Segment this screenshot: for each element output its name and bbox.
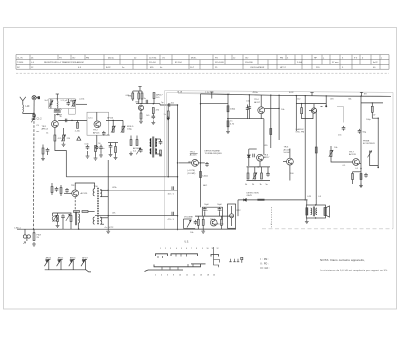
ground GND19 — [305, 220, 309, 224]
svg-text:455kc: 455kc — [253, 92, 258, 94]
svg-text:5: 5 — [173, 194, 175, 196]
resistor R32 — [352, 172, 354, 184]
title block text row 2 — [17, 61, 378, 64]
svg-text:HP 57: HP 57 — [280, 67, 287, 69]
diode D1 — [167, 117, 170, 122]
svg-text:TR.4: TR.4 — [210, 219, 216, 221]
wire jack down — [370, 158, 379, 168]
svg-text:0.25: 0.25 — [307, 196, 312, 198]
resistor R15 — [74, 211, 80, 213]
wire x271 dotted — [271, 207, 273, 228]
svg-text:9 V: 9 V — [354, 57, 358, 59]
svg-text:16 k: 16 k — [168, 194, 173, 196]
wire det row top — [249, 148, 257, 150]
resistor R6 variable — [121, 120, 125, 132]
node base junction — [71, 120, 72, 121]
note NOTA text — [320, 258, 387, 272]
wire T2 collector top — [96, 112, 98, 121]
ground GND9 — [226, 130, 230, 134]
svg-text:14: 14 — [193, 275, 195, 277]
label TR1 AF114 — [42, 126, 49, 131]
svg-text:25µ: 25µ — [107, 134, 111, 136]
svg-text:TR.5: TR.5 — [284, 147, 290, 149]
diode D3 detector — [244, 199, 247, 202]
capacitor C22 — [253, 154, 255, 158]
svg-text:AC125: AC125 — [81, 192, 88, 195]
label AF117 — [156, 93, 163, 99]
speaker LS1 — [324, 206, 330, 217]
capacitor C24 electrolytic — [203, 207, 209, 212]
resistor R41 — [51, 183, 53, 195]
label cote — [187, 170, 195, 175]
wire x270.8 down — [270, 95, 272, 148]
wire top cluster — [133, 91, 142, 93]
capacitor C37 — [102, 131, 111, 136]
transistor TR small bias — [52, 216, 57, 221]
wire to IF bus — [159, 104, 161, 105]
capacitor C39 on det line — [257, 199, 264, 201]
label depuis platine — [205, 150, 223, 156]
switch teeth left — [158, 256, 163, 258]
capacitor C31 — [109, 143, 113, 153]
wire base bus extension y120.4 — [106, 119, 123, 121]
diode D2 — [247, 149, 250, 166]
svg-text:2: 2 — [155, 275, 156, 277]
thermistor box — [228, 204, 236, 228]
resistor R3 variable osc — [61, 128, 65, 141]
svg-text:10kΩ: 10kΩ — [230, 108, 236, 110]
svg-text:10.7 Mc: 10.7 Mc — [149, 57, 156, 59]
node bus-113 — [113, 120, 114, 121]
svg-text:6x22: 6x22 — [373, 62, 378, 64]
svg-text:I : FM :: I : FM : — [261, 258, 269, 261]
svg-text:47: 47 — [373, 115, 376, 117]
legend transistor Q3 AF116 — [69, 256, 76, 269]
svg-text:0.1: 0.1 — [355, 168, 359, 170]
wire conv emitter bottom — [249, 114, 264, 119]
svg-text:Kc: Kc — [160, 67, 162, 69]
svg-text:OSCILLATEUR: OSCILLATEUR — [250, 66, 265, 69]
resistor R7 — [132, 93, 134, 99]
svg-text:515-1620: 515-1620 — [215, 62, 225, 64]
transistor TR4a preamp — [192, 160, 199, 167]
node x378 — [378, 118, 379, 119]
transformer T3 driver primary — [93, 189, 95, 225]
capacitor C20 — [246, 105, 250, 119]
transformer T3 core — [97, 188, 98, 225]
capacitor C6 osc — [86, 145, 90, 154]
supply tap +2 — [138, 87, 141, 91]
svg-text:1n: 1n — [144, 98, 146, 100]
separator dashed line under table — [16, 72, 389, 74]
ground GND7 — [32, 242, 36, 246]
svg-text:0.05: 0.05 — [246, 101, 251, 103]
wire det row bottom — [247, 180, 271, 182]
transformer T3 secondary — [100, 190, 102, 225]
label C11 — [168, 194, 175, 196]
switch bar S1d lower — [154, 264, 201, 267]
svg-text:(2COMP): (2COMP) — [187, 173, 195, 175]
capacitor CV1 tuning gang — [31, 116, 35, 123]
svg-text:TR.2: TR.2 — [93, 130, 99, 132]
svg-text:6: 6 — [186, 248, 187, 250]
node TR4a base — [177, 162, 178, 163]
svg-text:C3: C3 — [36, 125, 39, 127]
svg-text:PO: PO — [215, 57, 218, 59]
resistor R10 — [153, 93, 155, 104]
mark legend bar — [241, 257, 243, 262]
chassis outline big box — [165, 91, 394, 230]
node AVC-177 — [177, 176, 178, 177]
battery BT1 — [23, 229, 30, 241]
wire audio top y207.2 — [202, 206, 222, 208]
wire x361 drop — [360, 96, 362, 187]
node y215-x108 — [177, 215, 178, 216]
ground GND16 — [129, 152, 133, 156]
label detector — [247, 192, 260, 197]
transformer T4 output windings — [311, 208, 317, 215]
switch contact numbers top — [160, 248, 219, 250]
capacitor C38 output — [306, 208, 308, 215]
resistor R18 variable bias — [66, 213, 72, 230]
node out — [306, 199, 307, 200]
coil L1 antenna loading — [22, 105, 25, 112]
svg-text:PILE: PILE — [37, 234, 42, 236]
svg-text:FM: FM — [86, 57, 89, 59]
resistor R39 — [160, 150, 162, 156]
label det values — [245, 184, 269, 186]
node y103 — [301, 103, 302, 104]
svg-text:100µ: 100µ — [127, 129, 133, 131]
wire T6 taps — [155, 139, 160, 154]
transistor TR2 — [94, 121, 101, 128]
svg-text:4 x OC72: 4 x OC72 — [105, 227, 115, 229]
svg-text:1k: 1k — [46, 133, 48, 135]
wire c31 r36 top — [108, 142, 118, 144]
label MOLD 100u — [127, 126, 134, 131]
node rail drops — [227, 94, 361, 97]
transistor TR FM — [311, 108, 316, 113]
svg-text:FM: FM — [280, 57, 283, 59]
label fm text — [296, 128, 305, 134]
resistor R26 — [301, 104, 303, 114]
capacitor C35 — [55, 187, 59, 192]
terminal small circle — [96, 135, 98, 149]
transistor TR3 — [72, 190, 79, 197]
node x361 — [360, 168, 361, 169]
wire y103.7 — [201, 103, 229, 105]
node n2 — [153, 103, 154, 104]
capacitor C33 — [159, 139, 163, 145]
wire y105 to box — [160, 104, 178, 106]
wire x305 drop — [304, 96, 306, 200]
node jack end — [377, 167, 379, 169]
svg-text:B-32: B-32 — [106, 67, 111, 69]
capacitor C26 — [194, 220, 198, 225]
wire y106.5 elbow — [337, 107, 344, 123]
wire detector line y199.9 — [238, 199, 305, 201]
title block text row 3 — [17, 66, 376, 69]
label battery — [37, 234, 42, 239]
node b — [227, 118, 228, 119]
svg-text:8-5: 8-5 — [156, 97, 160, 99]
svg-text:2.2: 2.2 — [51, 100, 55, 102]
svg-text:C1-2: C1-2 — [37, 119, 43, 121]
wire x200 drop — [200, 94, 202, 207]
ground GND1 — [62, 142, 66, 146]
node det-305 — [305, 199, 306, 200]
svg-text:PO: PO — [59, 57, 62, 59]
svg-text:57 mm: 57 mm — [332, 62, 339, 64]
svg-text:PO-GO: PO-GO — [149, 62, 156, 64]
svg-text:20: 20 — [213, 275, 215, 277]
transistor TR4 — [210, 219, 217, 226]
capacitor C27 — [364, 173, 368, 178]
svg-text:16: 16 — [200, 275, 202, 277]
svg-text:5p: 5p — [161, 102, 164, 104]
svg-text:10k: 10k — [190, 232, 193, 234]
svg-text:2-15k: 2-15k — [79, 98, 84, 100]
resistor R33 — [360, 174, 362, 180]
svg-text:25: 25 — [215, 67, 218, 69]
svg-text:AF117: AF117 — [254, 101, 261, 104]
resistor R29 — [202, 216, 204, 229]
svg-text:2-AF102: 2-AF102 — [296, 128, 305, 131]
wire TR5 base — [283, 161, 287, 163]
svg-text:12: 12 — [217, 248, 219, 250]
label TR7 — [349, 151, 356, 156]
wire TR3 collector to T3 — [75, 183, 94, 190]
ground GND18 — [99, 153, 103, 157]
resistor R40 — [42, 145, 44, 157]
svg-text:NTC: NTC — [237, 210, 242, 212]
wire y229.1 — [195, 228, 236, 230]
svg-text:VOLUME: VOLUME — [184, 216, 193, 218]
capacitor C25 electrolytic — [218, 207, 224, 212]
node gang-bus — [33, 229, 34, 230]
legend transistor Q1 AF114 — [44, 256, 51, 269]
ground GND14 — [109, 153, 113, 157]
switch bar S1c — [211, 255, 219, 257]
svg-text:470k: 470k — [112, 187, 116, 189]
svg-text:L10: L10 — [26, 106, 31, 108]
capacitor C12 — [172, 212, 174, 216]
svg-text:AVC: AVC — [203, 184, 208, 187]
shield box T2 IF can — [87, 112, 109, 135]
fuse F1 — [33, 229, 35, 240]
output box — [306, 205, 325, 218]
resistor R17 bias — [57, 213, 59, 224]
svg-text:AF116: AF116 — [133, 147, 140, 150]
ground GND8 — [56, 224, 60, 228]
svg-text:6.8k: 6.8k — [126, 95, 130, 97]
svg-text:3: 3 — [170, 248, 171, 250]
svg-text:AF115: AF115 — [93, 131, 100, 134]
node box top — [315, 204, 316, 205]
capacitor C3 trimmer — [49, 99, 53, 109]
resistor R11 emitter — [140, 110, 142, 119]
svg-text:5-6: 5-6 — [133, 150, 137, 152]
wire conv feed — [260, 95, 262, 107]
test point triangle — [77, 137, 81, 141]
supply tap +3 — [210, 92, 213, 99]
node y102.9 — [372, 102, 373, 103]
svg-text:22: 22 — [134, 57, 137, 59]
capacitor C7 — [146, 100, 148, 104]
svg-text:CV: CV — [162, 57, 166, 59]
svg-text:U.S.: U.S. — [185, 242, 190, 244]
switch bar S1f mid — [191, 263, 206, 265]
svg-text:12: 12 — [186, 275, 188, 277]
resistor R24 variable — [253, 167, 257, 180]
ground GND4 — [139, 119, 143, 123]
svg-text:10.7: 10.7 — [190, 67, 195, 69]
label underline TR4a — [190, 152, 198, 154]
svg-text:L.6: L.6 — [31, 62, 35, 64]
ground GND11 — [359, 184, 363, 188]
svg-text:220: 220 — [67, 138, 71, 140]
svg-text:PRISE: PRISE — [363, 140, 370, 142]
supply tap +5 — [360, 92, 367, 96]
svg-text:T.50: T.50 — [94, 186, 99, 188]
svg-text:87-104: 87-104 — [175, 62, 182, 64]
wire TR1 emitter — [54, 127, 56, 135]
svg-text:1: 1 — [160, 248, 161, 250]
wire supply rail right — [201, 94, 392, 96]
ground GND8b — [106, 229, 110, 233]
svg-text:50µF: 50µF — [217, 204, 222, 206]
resistor R23 — [247, 167, 249, 179]
label C12 — [168, 219, 175, 221]
wire y102.9 top right — [361, 102, 383, 104]
capacitor C11 — [172, 186, 174, 190]
wire TR3 base — [64, 192, 72, 194]
wire fm collector — [313, 104, 315, 108]
svg-text:II : PO :: II : PO : — [261, 263, 269, 266]
capacitor C34 — [46, 148, 50, 155]
svg-text:50: 50 — [60, 116, 63, 118]
ground GND2 — [86, 154, 90, 158]
volume pot P1 — [184, 219, 196, 229]
svg-text:10k: 10k — [334, 147, 337, 149]
svg-text:MOLD: MOLD — [127, 126, 134, 128]
svg-text:SC: SC — [17, 67, 20, 69]
capacitor C8 — [152, 115, 156, 120]
resistor R4 osc — [95, 146, 97, 157]
svg-text:4: 4 — [161, 275, 162, 277]
svg-text:7: 7 — [191, 248, 192, 250]
resistor R5 variable AGC — [111, 120, 115, 132]
svg-text:56k: 56k — [348, 99, 351, 101]
svg-text:0.1: 0.1 — [343, 165, 347, 167]
resistor R25 — [261, 167, 263, 179]
svg-text:ECOUTEUR: ECOUTEUR — [363, 143, 375, 145]
svg-text:5a: 5a — [122, 67, 125, 69]
switch bar S1a — [156, 254, 168, 256]
wire bottom bus y229.2 — [17, 228, 196, 230]
transistor TR5 — [287, 158, 294, 165]
svg-text:AC125: AC125 — [190, 153, 197, 156]
wire bias top — [53, 213, 72, 216]
svg-text:DETECTION: DETECTION — [247, 192, 260, 194]
node x200 — [200, 103, 201, 104]
wire AVC bus y176.8 — [66, 176, 177, 178]
svg-text:460 kc: 460 kc — [108, 57, 114, 59]
svg-text:AF117: AF117 — [82, 256, 87, 259]
wire emitter to bus — [55, 141, 66, 177]
svg-text:5-6 kΩ: 5-6 kΩ — [284, 152, 291, 154]
wire y103.6 right — [296, 103, 326, 105]
svg-text:-+: -+ — [103, 147, 106, 150]
resistor R16 — [82, 211, 88, 213]
label right text — [363, 140, 375, 145]
node TR4a collector — [200, 162, 201, 163]
switch tick group b — [162, 264, 193, 270]
wire r34 corner — [372, 112, 378, 118]
node rail-coilbox — [57, 98, 58, 99]
capacitor C13 bias — [61, 214, 65, 229]
svg-text:18: 18 — [207, 275, 209, 277]
node x108 tap2 — [108, 215, 109, 216]
svg-text:AF115: AF115 — [58, 256, 63, 259]
svg-text:9V: 9V — [364, 93, 367, 95]
wire antenna to gang — [23, 112, 34, 113]
transformer T6 core — [153, 137, 154, 158]
ground GND5 — [151, 120, 155, 124]
svg-text:470: 470 — [330, 99, 334, 101]
svg-text:5: 5 — [173, 219, 175, 221]
svg-text:C2.1: C2.1 — [88, 118, 93, 120]
capacitor C21 — [248, 105, 252, 110]
svg-text:TR.4: TR.4 — [254, 99, 259, 101]
svg-text:50µF: 50µF — [204, 204, 209, 206]
resistor R34 — [371, 103, 373, 112]
svg-text:a: a — [323, 57, 325, 59]
legend transistor Q4 AF117 — [81, 256, 88, 269]
node at x177 — [177, 104, 178, 105]
svg-text:HP: HP — [314, 57, 318, 59]
wire base TR AM — [227, 118, 249, 120]
resistor R27 — [221, 216, 223, 229]
label TR2 AF115 — [93, 130, 100, 135]
resistor R12 — [152, 108, 154, 117]
label stage1 misc — [51, 100, 73, 118]
transformer T6 secondary — [155, 139, 156, 155]
capacitor C36 — [99, 145, 103, 154]
svg-text:AF116: AF116 — [107, 116, 114, 119]
svg-text:1n5: 1n5 — [338, 134, 342, 136]
wire bus x177 — [177, 105, 179, 230]
svg-text:10: 10 — [179, 275, 181, 277]
wire tone to base — [331, 157, 353, 163]
svg-text:MOD.: MOD. — [191, 57, 197, 59]
svg-text:RECEPTEUR 6+1 TRANSISTORS AM-F: RECEPTEUR 6+1 TRANSISTORS AM-FM — [44, 61, 84, 64]
svg-text:+: + — [207, 210, 209, 212]
svg-text:6: 6 — [167, 275, 168, 277]
title block text row 1 — [17, 57, 383, 59]
wire IF out y190.4 — [108, 189, 177, 191]
wire y216.1 — [195, 215, 234, 217]
wire x378 down — [377, 118, 379, 167]
svg-text:11: 11 — [212, 248, 214, 250]
resistor R22 — [270, 129, 272, 135]
antenna ANT — [20, 97, 26, 105]
wire TR3 emitter — [74, 197, 76, 211]
capacitor C10 — [65, 188, 69, 193]
svg-text:1k: 1k — [260, 184, 263, 186]
resistor R1 variable — [72, 100, 87, 107]
wire T1 collector — [54, 115, 56, 121]
